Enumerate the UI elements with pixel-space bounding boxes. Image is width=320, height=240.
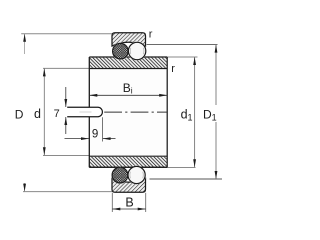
dimension d vertical line <box>43 68 45 155</box>
ball/cage bottom-left (crosshatched) <box>112 167 128 183</box>
svg-text:D: D <box>15 107 24 121</box>
inner ring bottom band edges <box>89 155 167 157</box>
inner ring bottom band lower edge redrawn <box>89 166 167 168</box>
inner ring right edge <box>166 57 168 167</box>
wire: d bottom extension line (bore) <box>43 155 89 157</box>
dimension B: extension lines + line with outward arrows <box>111 193 113 212</box>
dimension d1 vertical line <box>194 57 196 167</box>
raceway clearance halos (white) <box>112 43 129 60</box>
svg-text:B: B <box>125 196 133 210</box>
inner ring top band hatched <box>90 58 167 68</box>
dimension 7: vertical with inward arrows <box>65 87 67 107</box>
wire: D1 bottom extension line <box>150 178 223 180</box>
dimension 9: lines with inward arrows <box>65 138 90 140</box>
svg-text:r: r <box>149 28 153 40</box>
ball/cage top-left (crosshatched) <box>113 43 129 59</box>
wire: d1 top extension line <box>167 56 197 58</box>
svg-text:r: r <box>171 63 175 75</box>
svg-text:7: 7 <box>54 108 60 120</box>
ball bottom-right <box>128 166 145 183</box>
wire: D bottom extension line <box>23 191 112 193</box>
svg-text:d: d <box>34 107 41 121</box>
centerline faint segment inside slot <box>80 111 92 113</box>
ball top-right <box>128 42 145 59</box>
wire: d top extension line (bore) <box>43 67 89 69</box>
centerline (axis, dash-dot) <box>104 111 167 113</box>
outer ring bottom block (spherical raceway top arc) <box>112 178 146 192</box>
inner ring top band edges <box>89 56 167 58</box>
inner ring bottom band hatched <box>90 157 167 167</box>
dimension Bi line with outward arrows <box>89 94 167 96</box>
dimension D vertical line (short stems at arrows) <box>24 34 26 54</box>
outer ring top block (spherical raceway bottom arc) <box>112 33 146 46</box>
dimension D1 vertical line <box>215 45 217 105</box>
inner ring body (extended inner ring, white bore interior) <box>89 57 167 167</box>
svg-text:9: 9 <box>92 128 98 140</box>
wire: D1 top extension line <box>147 44 218 46</box>
inner ring left edge <box>88 57 90 107</box>
node: slot tip extension line <box>102 117 104 141</box>
wire: d1 bottom extension line <box>167 167 195 169</box>
slot in inner ring face <box>67 107 102 116</box>
wire: D top extension line <box>21 33 112 35</box>
